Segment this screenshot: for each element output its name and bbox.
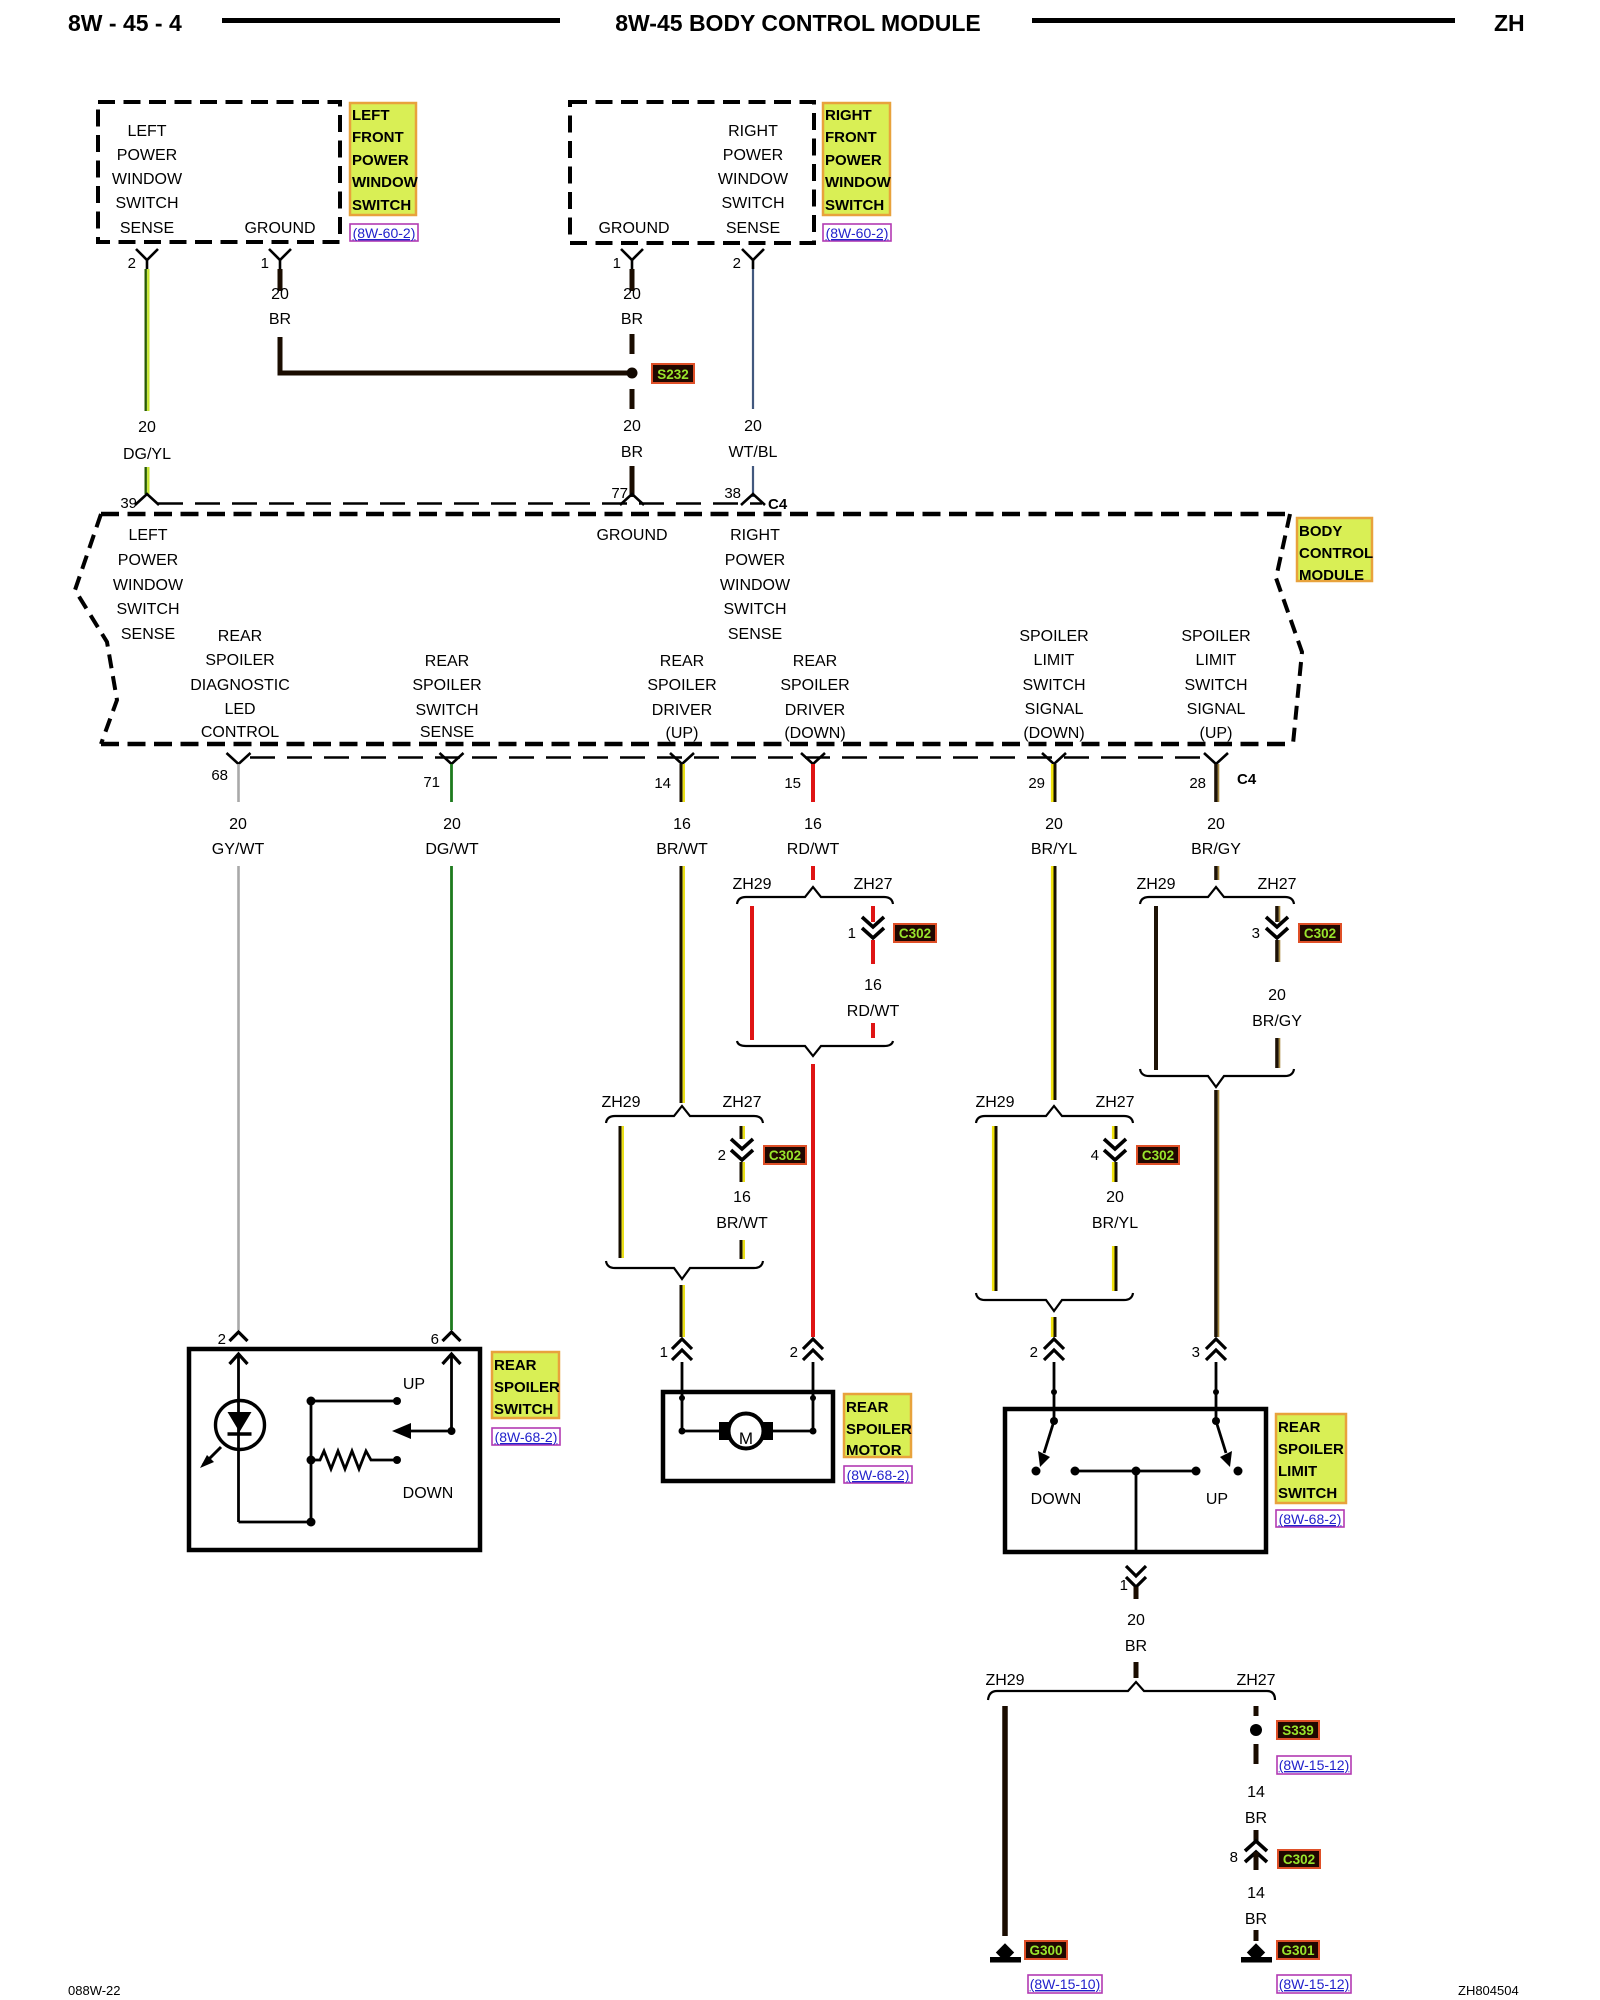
svg-text:C302: C302 xyxy=(1142,1148,1174,1163)
svg-text:20: 20 xyxy=(1127,1612,1145,1629)
svg-text:20: 20 xyxy=(623,286,641,303)
footer sheet numbers xyxy=(68,1983,1519,1998)
svg-text:(8W-68-2): (8W-68-2) xyxy=(1279,1511,1342,1527)
svg-text:ZH804504: ZH804504 xyxy=(1458,1983,1519,1998)
connector C302 pin 3 on ZH27 branch xyxy=(1252,906,1341,1030)
svg-text:POWER: POWER xyxy=(825,152,882,169)
svg-text:20: 20 xyxy=(138,419,156,436)
wire DG/WT from BCM pin 71 to rear spoiler switch pin 6 xyxy=(425,764,479,1330)
svg-text:C4: C4 xyxy=(1237,771,1257,788)
svg-text:SWITCH: SWITCH xyxy=(115,195,178,212)
svg-text:GROUND: GROUND xyxy=(244,220,315,237)
wire BR from limit switch pin 1 xyxy=(1125,1612,1147,1678)
svg-text:SPOILER: SPOILER xyxy=(647,677,716,694)
left front power window switch highlight label xyxy=(350,103,419,215)
svg-text:1: 1 xyxy=(613,255,621,272)
svg-text:29: 29 xyxy=(1028,775,1045,792)
svg-text:BR/YL: BR/YL xyxy=(1092,1215,1138,1232)
svg-text:BR: BR xyxy=(1245,1810,1267,1827)
svg-text:SWITCH: SWITCH xyxy=(494,1401,553,1418)
connector C4 line (bottom) xyxy=(250,756,1204,758)
connector C302 pin 2 on ZH27 branch xyxy=(716,1126,806,1232)
svg-text:ZH29: ZH29 xyxy=(985,1672,1024,1689)
svg-text:ZH29: ZH29 xyxy=(601,1094,640,1111)
svg-text:BR/WT: BR/WT xyxy=(716,1215,768,1232)
svg-text:REAR: REAR xyxy=(218,628,262,645)
label G301 xyxy=(1277,1941,1319,1959)
svg-text:LEFT: LEFT xyxy=(127,123,166,140)
pin 1 left switch xyxy=(261,249,291,272)
svg-text:REAR: REAR xyxy=(1278,1419,1321,1436)
wire RD/WT ZH29 branch xyxy=(750,906,754,1040)
svg-text:16: 16 xyxy=(733,1189,751,1206)
rear spoiler motor box xyxy=(663,1392,833,1481)
svg-text:4: 4 xyxy=(1091,1147,1099,1164)
rear spoiler switch pin 2 terminal xyxy=(218,1331,248,1402)
svg-text:POWER: POWER xyxy=(117,147,177,164)
svg-text:G300: G300 xyxy=(1029,1943,1062,1958)
svg-text:SENSE: SENSE xyxy=(726,220,780,237)
svg-text:BR/GY: BR/GY xyxy=(1191,841,1241,858)
svg-text:SWITCH: SWITCH xyxy=(723,601,786,618)
svg-text:RD/WT: RD/WT xyxy=(847,1003,900,1020)
svg-text:BODY: BODY xyxy=(1299,523,1342,540)
svg-text:SWITCH: SWITCH xyxy=(1022,677,1085,694)
motor M symbol xyxy=(679,1414,817,1449)
svg-text:SIGNAL: SIGNAL xyxy=(1025,701,1084,718)
svg-text:8W - 45 - 4: 8W - 45 - 4 xyxy=(68,10,182,36)
svg-text:38: 38 xyxy=(724,485,741,502)
svg-text:BR: BR xyxy=(621,444,643,461)
wire 14 BR labels xyxy=(1245,1784,1267,1841)
svg-text:FRONT: FRONT xyxy=(825,129,877,146)
svg-text:LED: LED xyxy=(224,701,255,718)
svg-text:BR/WT: BR/WT xyxy=(656,841,708,858)
svg-text:MODULE: MODULE xyxy=(1299,567,1364,584)
svg-text:SWITCH: SWITCH xyxy=(415,702,478,719)
ground G301 xyxy=(1241,1943,1272,1962)
svg-text:SPOILER: SPOILER xyxy=(494,1379,560,1396)
svg-text:RIGHT: RIGHT xyxy=(728,123,778,140)
svg-text:CONTROL: CONTROL xyxy=(1299,545,1373,562)
svg-text:BR: BR xyxy=(1125,1638,1147,1655)
svg-text:DOWN: DOWN xyxy=(1031,1491,1082,1508)
svg-text:2: 2 xyxy=(790,1344,798,1361)
svg-text:SPOILER: SPOILER xyxy=(1278,1441,1344,1458)
wire BR ZH29 branch to G300 xyxy=(1002,1706,1008,1936)
limit switch DOWN arm xyxy=(1031,1417,1082,1508)
wire WT/BL from right switch pin 2 to BCM pin 38 xyxy=(729,269,778,497)
svg-text:3: 3 xyxy=(1192,1344,1200,1361)
svg-text:1: 1 xyxy=(660,1344,668,1361)
svg-text:20: 20 xyxy=(271,286,289,303)
connector C4 line (top) xyxy=(158,502,762,504)
svg-text:POWER: POWER xyxy=(118,552,178,569)
svg-text:28: 28 xyxy=(1189,775,1206,792)
wire 14 BR to G301 xyxy=(1245,1885,1267,1941)
svg-text:SWITCH: SWITCH xyxy=(1184,677,1247,694)
wire BR below S339 xyxy=(1254,1744,1259,1764)
svg-text:RIGHT: RIGHT xyxy=(825,107,872,124)
svg-text:S339: S339 xyxy=(1282,1723,1314,1738)
svg-text:SENSE: SENSE xyxy=(120,220,174,237)
link 8W-60-2 left xyxy=(350,224,418,241)
svg-text:LIMIT: LIMIT xyxy=(1278,1463,1317,1480)
svg-text:20: 20 xyxy=(1106,1189,1124,1206)
right front power window switch highlight label xyxy=(823,103,892,215)
svg-text:ZH29: ZH29 xyxy=(1136,876,1175,893)
svg-text:ZH27: ZH27 xyxy=(1257,876,1296,893)
wire BR from left switch pin 1 to splice S232 xyxy=(269,269,627,373)
svg-text:16: 16 xyxy=(804,816,822,833)
svg-text:SENSE: SENSE xyxy=(420,724,474,741)
pin 2 left switch xyxy=(128,249,158,272)
pin 71 xyxy=(423,753,463,791)
svg-text:RIGHT: RIGHT xyxy=(730,527,780,544)
svg-text:SENSE: SENSE xyxy=(121,626,175,643)
svg-text:MOTOR: MOTOR xyxy=(846,1442,902,1459)
wire BR/WT from BCM pin 14 xyxy=(656,764,708,1103)
svg-text:SWITCH: SWITCH xyxy=(825,197,884,214)
motor pin 2 connector xyxy=(790,1339,823,1431)
wire DG/YL from left switch pin 2 to BCM pin 39 xyxy=(123,269,171,494)
limit switch pin 1 connector xyxy=(1120,1566,1146,1599)
splice S339 xyxy=(1250,1721,1319,1739)
svg-text:BR: BR xyxy=(621,311,643,328)
svg-text:GROUND: GROUND xyxy=(596,527,667,544)
svg-text:WINDOW: WINDOW xyxy=(720,577,791,594)
svg-text:SENSE: SENSE xyxy=(728,626,782,643)
wire BR/GY dash below label xyxy=(1277,1038,1280,1068)
svg-text:1: 1 xyxy=(848,925,856,942)
svg-text:SIGNAL: SIGNAL xyxy=(1187,701,1246,718)
pin 1 right switch xyxy=(613,249,643,272)
svg-text:39: 39 xyxy=(120,495,137,512)
svg-text:6: 6 xyxy=(431,1331,439,1348)
svg-text:UP: UP xyxy=(403,1376,425,1393)
svg-text:8W-45 BODY CONTROL MODULE: 8W-45 BODY CONTROL MODULE xyxy=(615,10,980,36)
svg-text:DRIVER: DRIVER xyxy=(652,702,712,719)
svg-text:2: 2 xyxy=(218,1331,226,1348)
svg-text:REAR: REAR xyxy=(494,1357,537,1374)
svg-text:20: 20 xyxy=(229,816,247,833)
pin 38 xyxy=(724,485,765,505)
svg-text:BR/YL: BR/YL xyxy=(1031,841,1077,858)
svg-text:S232: S232 xyxy=(657,367,689,382)
svg-text:ZH: ZH xyxy=(1494,10,1525,36)
wire RD/WT from BCM pin 15 xyxy=(787,764,840,880)
svg-text:SPOILER: SPOILER xyxy=(412,677,481,694)
limit switch UP arm xyxy=(1206,1417,1243,1508)
rear spoiler motor highlight label xyxy=(844,1394,912,1459)
svg-text:BR/GY: BR/GY xyxy=(1252,1013,1302,1030)
pin 15 xyxy=(784,753,825,792)
pin 77 xyxy=(611,485,644,505)
svg-text:2: 2 xyxy=(733,255,741,272)
svg-text:(8W-15-10): (8W-15-10) xyxy=(1030,1976,1101,1992)
limit switch pin 3 connector xyxy=(1192,1339,1226,1421)
svg-text:POWER: POWER xyxy=(352,152,409,169)
svg-text:(8W-15-12): (8W-15-12) xyxy=(1279,1976,1350,1992)
svg-text:LIMIT: LIMIT xyxy=(1196,652,1237,669)
svg-text:14: 14 xyxy=(1247,1885,1265,1902)
svg-text:20: 20 xyxy=(443,816,461,833)
svg-text:2: 2 xyxy=(1030,1344,1038,1361)
svg-text:8: 8 xyxy=(1230,1849,1238,1866)
harness merge for BR/YL xyxy=(976,1293,1133,1337)
harness merge for BR/GY xyxy=(1140,1069,1294,1337)
svg-text:BR: BR xyxy=(1245,1911,1267,1928)
rear spoiler switch highlight label xyxy=(492,1352,560,1418)
pin 29 xyxy=(1028,753,1066,792)
svg-text:SPOILER: SPOILER xyxy=(780,677,849,694)
rear spoiler limit switch highlight label xyxy=(1276,1414,1346,1503)
svg-text:20: 20 xyxy=(744,418,762,435)
svg-text:WT/BL: WT/BL xyxy=(729,444,778,461)
link 8W-68-2 motor xyxy=(844,1466,912,1483)
svg-text:1: 1 xyxy=(261,255,269,272)
link 8W-15-12 lower xyxy=(1277,1975,1351,1993)
svg-text:3: 3 xyxy=(1252,925,1260,942)
pin 28 xyxy=(1189,753,1228,792)
svg-text:DRIVER: DRIVER xyxy=(785,702,845,719)
diagnostic LED xyxy=(200,1401,265,1523)
limit switch common contact xyxy=(1071,1467,1201,1553)
svg-text:(8W-68-2): (8W-68-2) xyxy=(495,1429,558,1445)
rear spoiler limit switch box xyxy=(1005,1409,1266,1552)
harness merge for RD/WT xyxy=(737,1041,893,1337)
svg-text:ZH27: ZH27 xyxy=(1095,1094,1134,1111)
svg-text:LEFT: LEFT xyxy=(352,107,390,124)
svg-text:LEFT: LEFT xyxy=(128,527,167,544)
svg-text:REAR: REAR xyxy=(846,1399,889,1416)
link 8W-60-2 right xyxy=(823,224,891,241)
svg-text:C302: C302 xyxy=(1304,926,1336,941)
svg-text:20: 20 xyxy=(1045,816,1063,833)
limit switch pin 2 connector xyxy=(1030,1339,1064,1421)
svg-text:ZH27: ZH27 xyxy=(722,1094,761,1111)
harness split ZH29/ZH27 for BR/YL xyxy=(975,1094,1134,1123)
svg-text:DOWN: DOWN xyxy=(403,1485,454,1502)
svg-text:(UP): (UP) xyxy=(666,725,699,742)
svg-text:M: M xyxy=(739,1429,753,1448)
svg-text:(UP): (UP) xyxy=(1200,725,1233,742)
harness split ZH29/ZH27 for BR/WT xyxy=(601,1094,763,1123)
body control module box xyxy=(75,514,1302,744)
svg-text:DIAGNOSTIC: DIAGNOSTIC xyxy=(190,677,290,694)
svg-text:2: 2 xyxy=(718,1147,726,1164)
svg-text:SWITCH: SWITCH xyxy=(352,197,411,214)
pin 68 xyxy=(211,753,250,784)
svg-text:15: 15 xyxy=(784,775,801,792)
link 8W-68-2 switch xyxy=(492,1428,560,1445)
switch UP contact xyxy=(307,1376,426,1406)
svg-text:C4: C4 xyxy=(768,496,788,513)
header title block xyxy=(68,10,1525,36)
svg-text:16: 16 xyxy=(673,816,691,833)
svg-text:GY/WT: GY/WT xyxy=(212,841,265,858)
ground G300 xyxy=(990,1943,1021,1962)
svg-text:71: 71 xyxy=(423,774,440,791)
svg-text:WINDOW: WINDOW xyxy=(113,577,184,594)
link 8W-15-10 xyxy=(1028,1975,1102,1993)
body control module highlight label xyxy=(1297,518,1373,584)
svg-text:SPOILER: SPOILER xyxy=(1019,628,1088,645)
pin 14 xyxy=(654,753,694,792)
svg-text:C302: C302 xyxy=(899,926,931,941)
svg-text:FRONT: FRONT xyxy=(352,129,404,146)
harness split ZH29/ZH27 for RD/WT xyxy=(732,876,893,904)
svg-text:2: 2 xyxy=(128,255,136,272)
svg-text:SWITCH: SWITCH xyxy=(116,601,179,618)
svg-text:GROUND: GROUND xyxy=(598,220,669,237)
svg-text:ZH27: ZH27 xyxy=(1236,1672,1275,1689)
svg-text:POWER: POWER xyxy=(723,147,783,164)
svg-text:C302: C302 xyxy=(1283,1852,1315,1867)
svg-text:14: 14 xyxy=(1247,1784,1265,1801)
connector C302 pin 1 on ZH27 branch xyxy=(847,906,936,1038)
svg-text:REAR: REAR xyxy=(425,653,469,670)
harness merge for BR/WT xyxy=(606,1261,763,1337)
svg-text:DG/WT: DG/WT xyxy=(425,841,479,858)
svg-text:14: 14 xyxy=(654,775,671,792)
svg-text:(8W-68-2): (8W-68-2) xyxy=(847,1467,910,1483)
svg-text:BR: BR xyxy=(269,311,291,328)
rear spoiler switch pin 6 terminal xyxy=(431,1331,461,1431)
right front power window switch box xyxy=(570,102,814,243)
connector C302 pin 4 on ZH27 branch xyxy=(1091,1126,1179,1232)
svg-text:ZH27: ZH27 xyxy=(853,876,892,893)
svg-text:ZH29: ZH29 xyxy=(975,1094,1014,1111)
wire BR/GY ZH29 branch xyxy=(1154,906,1158,1070)
svg-text:RD/WT: RD/WT xyxy=(787,841,840,858)
svg-text:(8W-15-12): (8W-15-12) xyxy=(1279,1757,1350,1773)
svg-text:C302: C302 xyxy=(769,1148,801,1163)
svg-text:(8W-60-2): (8W-60-2) xyxy=(826,225,889,241)
svg-text:G301: G301 xyxy=(1281,1943,1315,1958)
svg-text:SWITCH: SWITCH xyxy=(1278,1485,1337,1502)
wire BR from right switch pin 1 through S232 to BCM pin 77 xyxy=(621,269,643,497)
svg-text:ZH29: ZH29 xyxy=(732,876,771,893)
svg-text:SPOILER: SPOILER xyxy=(1181,628,1250,645)
connector C302 pin 8 xyxy=(1230,1841,1320,1870)
pin 39 xyxy=(120,494,159,512)
wire BR/GY from BCM pin 28 xyxy=(1191,764,1241,880)
svg-text:SPOILER: SPOILER xyxy=(205,652,274,669)
svg-text:DG/YL: DG/YL xyxy=(123,446,171,463)
svg-text:(DOWN): (DOWN) xyxy=(1023,725,1084,742)
svg-text:REAR: REAR xyxy=(660,653,704,670)
label G300 xyxy=(1025,1941,1067,1959)
svg-text:WINDOW: WINDOW xyxy=(352,174,419,191)
wire GY/WT from BCM pin 68 to rear spoiler switch pin 2 xyxy=(212,764,265,1330)
svg-text:WINDOW: WINDOW xyxy=(825,174,892,191)
wire BR/WT dash below label xyxy=(741,1240,744,1259)
svg-text:WINDOW: WINDOW xyxy=(718,171,789,188)
svg-text:POWER: POWER xyxy=(725,552,785,569)
harness split ZH29/ZH27 for BR/GY xyxy=(1136,876,1296,904)
svg-text:WINDOW: WINDOW xyxy=(112,171,183,188)
switch wiper arm (pin 6) xyxy=(392,1423,456,1439)
wire BR/WT ZH29 branch xyxy=(620,1126,623,1258)
switch resistor and DOWN contact xyxy=(239,1401,454,1527)
svg-text:LIMIT: LIMIT xyxy=(1034,652,1075,669)
svg-text:SWITCH: SWITCH xyxy=(721,195,784,212)
svg-text:088W-22: 088W-22 xyxy=(68,1983,121,1998)
svg-text:SPOILER: SPOILER xyxy=(846,1421,912,1438)
svg-text:20: 20 xyxy=(623,418,641,435)
svg-text:UP: UP xyxy=(1206,1491,1228,1508)
svg-text:CONTROL: CONTROL xyxy=(201,724,279,741)
wire BR ZH27 branch xyxy=(1254,1706,1259,1716)
svg-text:(8W-60-2): (8W-60-2) xyxy=(353,225,416,241)
svg-text:16: 16 xyxy=(864,977,882,994)
link 8W-68-2 limit switch xyxy=(1276,1510,1344,1527)
harness split ZH29/ZH27 bottom xyxy=(985,1672,1275,1700)
svg-text:(DOWN): (DOWN) xyxy=(784,725,845,742)
rear spoiler switch box xyxy=(189,1349,480,1550)
motor pin 1 connector xyxy=(660,1339,692,1431)
svg-text:20: 20 xyxy=(1268,987,1286,1004)
wire BR/YL ZH29 branch xyxy=(993,1126,996,1291)
svg-text:20: 20 xyxy=(1207,816,1225,833)
left front power window switch box xyxy=(98,102,340,242)
pin 2 right switch xyxy=(733,249,764,272)
svg-text:68: 68 xyxy=(211,767,228,784)
link 8W-15-12 upper xyxy=(1277,1756,1351,1774)
wire BR/YL dash below label xyxy=(1113,1246,1116,1291)
svg-text:REAR: REAR xyxy=(793,653,837,670)
splice S232 xyxy=(627,364,695,383)
wire BR/YL from BCM pin 29 xyxy=(1031,764,1077,1100)
